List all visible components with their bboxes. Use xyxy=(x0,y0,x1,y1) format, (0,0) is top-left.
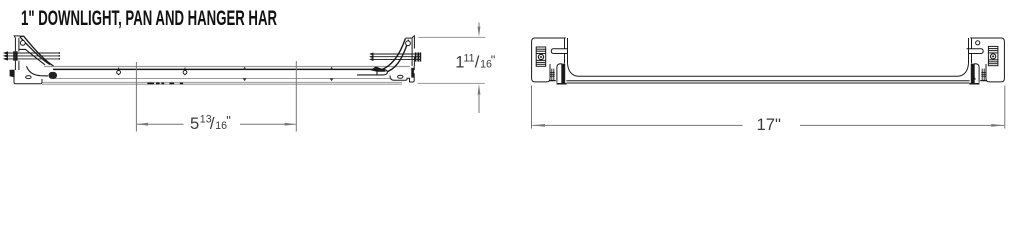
dimension 17 extension line left xyxy=(531,86,533,129)
pan right slot xyxy=(988,46,998,65)
right bracket hole xyxy=(406,41,411,46)
pan right clamp dark wedge xyxy=(972,73,976,80)
dimension 17 extension line right xyxy=(1004,86,1006,129)
dimension 5 13/16 extension line right xyxy=(295,61,297,132)
dimension 17 line right segment with arrow xyxy=(800,124,1005,127)
keyhole slot 1 xyxy=(117,68,121,76)
pan left slot xyxy=(536,47,546,66)
svg-text:": " xyxy=(226,113,231,128)
lower channel bottom edge xyxy=(42,83,402,85)
pan right upturn dark bar xyxy=(971,64,975,83)
svg-text:1" DOWNLIGHT, PAN AND HANGER H: 1" DOWNLIGHT, PAN AND HANGER HAR xyxy=(21,7,277,30)
dimension text 5 13/16 xyxy=(190,113,231,133)
pan right plate hole xyxy=(976,41,980,45)
left bracket hole xyxy=(20,41,25,46)
pan right clamp screw xyxy=(980,69,987,81)
svg-text:16: 16 xyxy=(215,120,227,132)
pan left clamp lever xyxy=(557,64,565,83)
pan right plate xyxy=(969,38,1005,82)
left bracket nails xyxy=(4,51,60,60)
svg-text:/: / xyxy=(210,114,215,133)
dimension text 1 11/16 xyxy=(455,52,496,71)
outer channel top edge xyxy=(44,66,410,68)
pan left clamp screw xyxy=(549,69,556,81)
pan left plate xyxy=(532,38,568,82)
dimension 5 13/16 line right segment with arrow xyxy=(240,123,296,126)
pan left stub bar xyxy=(551,49,568,54)
right bracket foot oval hole xyxy=(398,75,403,78)
dimension 17 line left segment with arrow xyxy=(532,124,743,127)
pan inner vertical edges xyxy=(565,54,972,64)
inner bar left end pill xyxy=(49,72,58,79)
left end bracket plate xyxy=(14,36,19,70)
right bracket dark mark xyxy=(411,68,414,78)
pan bottom strip xyxy=(566,81,969,83)
punch arrow pair 2 up xyxy=(330,67,334,70)
right end bracket strap curving up from inner bar xyxy=(377,39,409,73)
left bracket arm curve to lower channel xyxy=(27,66,49,76)
keyhole slot 2 xyxy=(183,68,187,76)
left bracket foot dark wedge xyxy=(10,70,15,78)
inner bar bottom edge xyxy=(53,78,390,80)
dimension 1 11/16 bottom arrow xyxy=(478,84,481,113)
dimension 1 11/16 extension line top xyxy=(418,36,485,38)
pan right clamp foot step xyxy=(969,83,979,85)
pan left upturn dark bar xyxy=(561,64,565,83)
outer channel right end cap xyxy=(357,69,387,75)
right bracket strap dark wedge xyxy=(371,66,386,71)
svg-text:": " xyxy=(491,52,496,67)
pan left clamp foot step xyxy=(557,83,567,85)
dimension 1 11/16 top arrow xyxy=(478,23,481,37)
punch arrow pair 1 up xyxy=(243,67,247,70)
pan right stub bar xyxy=(967,49,984,54)
left bracket foot oval hole xyxy=(26,76,31,79)
right bracket nails xyxy=(370,52,421,61)
svg-text:5: 5 xyxy=(190,114,199,133)
left bracket gusset strap xyxy=(19,36,54,66)
right bracket foot outline xyxy=(390,66,414,82)
svg-text:11: 11 xyxy=(464,52,475,64)
svg-text:17": 17" xyxy=(757,115,781,134)
perforation dashes on lower channel xyxy=(147,82,183,84)
svg-text:/: / xyxy=(475,53,480,72)
dimension 1 11/16 extension line bottom xyxy=(418,82,485,84)
lower channel top edge xyxy=(42,81,402,83)
dimension 5 13/16 extension line left xyxy=(135,62,137,132)
punch arrow pair 1 down xyxy=(243,78,247,81)
inner bar top edge xyxy=(53,68,385,70)
right bracket plate xyxy=(406,36,415,66)
dimension 5 13/16 line left segment with arrow xyxy=(137,123,184,126)
pan right clamp lever xyxy=(972,64,980,83)
left bracket foot outline xyxy=(14,70,42,84)
punch arrow pair 2 down xyxy=(330,78,334,81)
pan top rim with end curves xyxy=(568,54,969,77)
